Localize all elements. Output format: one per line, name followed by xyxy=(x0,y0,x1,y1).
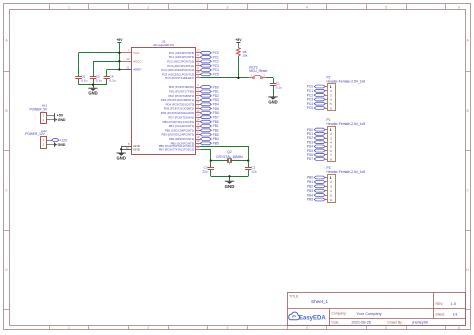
svg-text:Drawn By:: Drawn By: xyxy=(388,320,403,324)
svg-text:2: 2 xyxy=(147,5,149,9)
svg-text:MCU_Reset: MCU_Reset xyxy=(249,69,267,73)
resistor R5 10k xyxy=(237,48,248,58)
power flag +5V (reset pull-up) xyxy=(235,38,242,48)
pin 28 PC5 xyxy=(162,70,219,76)
svg-text:PD7: PD7 xyxy=(213,115,219,119)
svg-text:PB3: PB3 xyxy=(307,189,313,193)
pin 19 PB5 xyxy=(171,139,219,145)
svg-text:Sheet:: Sheet: xyxy=(436,312,446,316)
connector H12 POWER_12V xyxy=(25,129,54,149)
junction cap rail xyxy=(92,84,94,86)
net flag PB5 (P3 pin 6) xyxy=(307,198,327,202)
svg-text:0.1u: 0.1u xyxy=(110,79,116,83)
capacitor C5 0.1u xyxy=(90,75,102,85)
svg-text:4: 4 xyxy=(306,5,308,9)
wire C4 drop xyxy=(106,70,108,75)
svg-text:PD7: PD7 xyxy=(307,157,313,161)
net flag PD6 (P1 pin 7) xyxy=(307,153,328,157)
wire PB6 to crystal right xyxy=(200,146,248,148)
pin 22 GND xyxy=(122,146,141,151)
svg-text:PB5: PB5 xyxy=(213,141,219,145)
wire AREF row xyxy=(107,69,121,71)
junction crystal right xyxy=(247,160,249,162)
svg-text:2021-08-26: 2021-08-26 xyxy=(352,321,371,325)
wire GND pin 8 xyxy=(120,146,123,148)
svg-text:GND: GND xyxy=(117,155,126,160)
svg-text:Sheet_1: Sheet_1 xyxy=(311,299,329,304)
net flag PD3 (P1 pin 4) xyxy=(307,140,328,144)
svg-text:PC6 (PCINT14RESET): PC6 (PCINT14RESET) xyxy=(165,76,194,80)
net label +12V (H12 pin 1) xyxy=(52,138,68,142)
svg-text:0.1u: 0.1u xyxy=(96,79,102,83)
pin 17 PB3 xyxy=(162,131,219,137)
svg-text:6: 6 xyxy=(458,5,460,9)
pin 15 PB1 xyxy=(169,122,219,128)
svg-text:PC5: PC5 xyxy=(307,106,313,110)
svg-text:1.0: 1.0 xyxy=(451,301,457,306)
svg-text:10k: 10k xyxy=(243,54,248,58)
pin 25 PC2 xyxy=(167,57,219,63)
junction crystal gnd xyxy=(228,175,230,177)
pin 5 PD3 xyxy=(161,96,219,102)
pin 13 PD7 xyxy=(168,113,219,119)
pin 9 PB6 xyxy=(159,142,201,148)
net flag PC1 (P2 pin 2) xyxy=(307,89,328,93)
wire R5 to reset node xyxy=(238,56,240,78)
svg-text:ATmega328-PU: ATmega328-PU xyxy=(153,43,174,47)
svg-text:+12V: +12V xyxy=(59,138,68,142)
net flag PB1 (P3 pin 2) xyxy=(307,180,327,184)
svg-text:21: 21 xyxy=(126,65,129,69)
ground (reset C1) xyxy=(268,97,277,104)
EasyEDA logo xyxy=(289,312,327,321)
svg-text:Header-Female-2.54_1x8: Header-Female-2.54_1x8 xyxy=(327,122,366,126)
svg-text:GND: GND xyxy=(88,91,97,96)
net flag PD7 (P1 pin 8) xyxy=(307,157,328,161)
capacitor C6 0.1u xyxy=(75,75,87,85)
pin 10 PB7 xyxy=(159,145,201,151)
pin 12 PD6 xyxy=(161,109,219,115)
svg-text:+5V: +5V xyxy=(235,38,242,42)
capacitor C2 22p xyxy=(245,161,257,177)
svg-text:PB3: PB3 xyxy=(213,133,219,137)
wire C5 drop xyxy=(93,61,95,74)
pin 3 PD1 xyxy=(169,87,219,93)
svg-text:PB3 (MOSIOC2APCINT3): PB3 (MOSIOC2APCINT3) xyxy=(162,133,195,137)
net flag PD0 (P1 pin 1) xyxy=(307,128,328,132)
svg-text:PB0: PB0 xyxy=(307,176,313,180)
wire cap ground rail xyxy=(79,84,107,86)
ground (crystal) xyxy=(225,176,235,189)
svg-text:GND: GND xyxy=(133,147,141,151)
svg-text:1/1: 1/1 xyxy=(453,312,458,316)
svg-text:TITLE:: TITLE: xyxy=(290,294,300,298)
svg-text:5: 5 xyxy=(385,5,387,9)
ground (IC GND pins) xyxy=(117,149,126,160)
power flag +5V (H11 pin 1) xyxy=(55,113,64,117)
crystal Q2 CRYSTAL 16MHz xyxy=(216,150,243,165)
capacitor C1 0.1u xyxy=(270,81,282,89)
junction reset node xyxy=(237,77,239,79)
net flag PB4 (P3 pin 5) xyxy=(307,193,327,197)
net flag PB2 (P3 pin 3) xyxy=(307,184,327,188)
pin 4 PD2 xyxy=(169,92,219,98)
svg-text:PB1: PB1 xyxy=(307,180,313,184)
svg-text:1: 1 xyxy=(68,326,70,330)
junction AVCC xyxy=(118,60,120,62)
pin 11 PD5 xyxy=(164,105,219,111)
pin 2 PD0 xyxy=(169,83,219,89)
pin 21 AREF xyxy=(121,65,142,71)
pin 27 PC4 xyxy=(161,66,219,72)
net flag PC5 (P2 pin 6) xyxy=(307,106,328,110)
svg-text:EasyEDA: EasyEDA xyxy=(299,316,326,322)
pushbutton KEY2 MCU_Reset xyxy=(249,65,267,79)
wire VCC row xyxy=(79,52,121,54)
svg-text:Header-Female-2.54_1x6: Header-Female-2.54_1x6 xyxy=(327,79,366,83)
svg-text:PD7 (PCINT23AIN1): PD7 (PCINT23AIN1) xyxy=(168,115,194,119)
pin 20 AVCC xyxy=(121,57,142,63)
wire GND vertical xyxy=(121,146,123,149)
svg-text:VCC: VCC xyxy=(133,51,140,55)
junction IC ground xyxy=(120,148,122,150)
svg-text:22p: 22p xyxy=(251,170,256,174)
svg-text:POWER_5V: POWER_5V xyxy=(30,107,49,111)
svg-text:jhehey99: jhehey99 xyxy=(412,321,428,325)
svg-text:AREF: AREF xyxy=(133,68,141,72)
svg-text:Your Company: Your Company xyxy=(357,312,382,316)
net flag PC3 (P2 pin 4) xyxy=(307,98,328,102)
pin 26 PC3 xyxy=(167,62,219,68)
net flag PB3 (P3 pin 4) xyxy=(307,189,327,193)
power flag +5V (VCC rail) xyxy=(116,38,123,43)
wire crystal row xyxy=(211,160,248,162)
ground (decoupling caps) xyxy=(88,85,97,96)
wire GND pin 22 xyxy=(120,149,123,151)
wire PC6 RESET net xyxy=(200,77,249,79)
net flag PD1 (P1 pin 2) xyxy=(307,132,328,136)
wire AVCC row xyxy=(93,61,121,63)
svg-text:5: 5 xyxy=(385,326,387,330)
junction VCC xyxy=(118,52,120,54)
net flag PD2 (P1 pin 3) xyxy=(307,136,328,140)
svg-text:20: 20 xyxy=(126,57,129,61)
svg-text:Header-Female-2.54_1x6: Header-Female-2.54_1x6 xyxy=(327,170,366,174)
svg-text:PB7 (PCINT7XTAL2TOSC2): PB7 (PCINT7XTAL2TOSC2) xyxy=(159,147,195,151)
IC U5 ATmega328-PU body xyxy=(132,40,196,155)
wire button to C1 xyxy=(266,77,273,79)
capacitor C4 0.1u xyxy=(104,75,116,85)
svg-text:Q2: Q2 xyxy=(227,150,232,154)
svg-text:22p: 22p xyxy=(202,170,207,174)
ground flag GND (H12 pin 2) xyxy=(55,142,66,147)
net flag PB0 (P3 pin 1) xyxy=(307,176,327,180)
svg-text:PB4: PB4 xyxy=(307,193,313,197)
wire PB7 to crystal left xyxy=(200,149,211,151)
svg-text:PB2: PB2 xyxy=(307,184,313,188)
connector P2 Header-Female-2.54_1x6 xyxy=(327,75,366,110)
svg-text:3: 3 xyxy=(227,5,229,9)
svg-text:PB5: PB5 xyxy=(307,198,313,202)
svg-text:GND: GND xyxy=(58,143,66,147)
net flag PD4 (P1 pin 5) xyxy=(307,145,328,149)
svg-text:PC5: PC5 xyxy=(213,72,219,76)
svg-text:0.1u: 0.1u xyxy=(276,85,282,89)
wire C1 to ground xyxy=(273,86,275,97)
pin 18 PB4 xyxy=(169,135,219,141)
junction AREF xyxy=(118,68,120,70)
pin 7 VCC xyxy=(121,49,141,55)
pin 6 PD4 xyxy=(166,100,219,106)
pin 16 PB2 xyxy=(165,126,219,132)
pin 8 GND xyxy=(122,142,141,148)
net flag PD5 (P1 pin 6) xyxy=(307,149,328,153)
capacitor C3 22p xyxy=(202,161,214,177)
connector P1 Header-Female-2.54_1x8 xyxy=(327,118,366,162)
junction crystal left xyxy=(210,160,212,162)
pin 14 PB0 xyxy=(162,118,218,124)
svg-text:1: 1 xyxy=(68,5,70,9)
ground flag GND (H11 pin 2) xyxy=(55,118,67,122)
svg-text:Date:: Date: xyxy=(332,320,340,324)
connector P3 Header-Female-2.54_1x6 xyxy=(327,166,366,202)
pin 24 PC1 xyxy=(169,53,219,59)
svg-text:+5V: +5V xyxy=(116,38,123,42)
svg-text:REV:: REV: xyxy=(436,302,444,306)
net flag PC0 (P2 pin 1) xyxy=(307,85,328,89)
svg-text:Company:: Company: xyxy=(332,312,347,316)
svg-text:POWER_12V: POWER_12V xyxy=(25,132,45,136)
svg-text:3: 3 xyxy=(227,326,229,330)
connector H11 POWER_5V xyxy=(30,103,55,123)
wire C6 drop xyxy=(78,53,80,75)
svg-text:GND: GND xyxy=(268,99,277,104)
svg-text:GND: GND xyxy=(58,118,66,122)
svg-text:6: 6 xyxy=(458,326,460,330)
svg-text:GND: GND xyxy=(225,184,235,189)
title block xyxy=(287,292,466,326)
pin 23 PC0 xyxy=(169,49,219,55)
pin 1 PC6 xyxy=(165,74,200,80)
svg-text:AVCC: AVCC xyxy=(133,59,142,63)
svg-text:4: 4 xyxy=(306,326,308,330)
net flag PC2 (P2 pin 3) xyxy=(307,93,328,97)
svg-text:2: 2 xyxy=(147,326,149,330)
svg-text:0.1u: 0.1u xyxy=(81,79,87,83)
net flag PC4 (P2 pin 5) xyxy=(307,102,328,106)
wire +5V vertical to VCC/AVCC/AREF xyxy=(119,43,121,70)
wire crystal ground rail xyxy=(211,176,248,178)
